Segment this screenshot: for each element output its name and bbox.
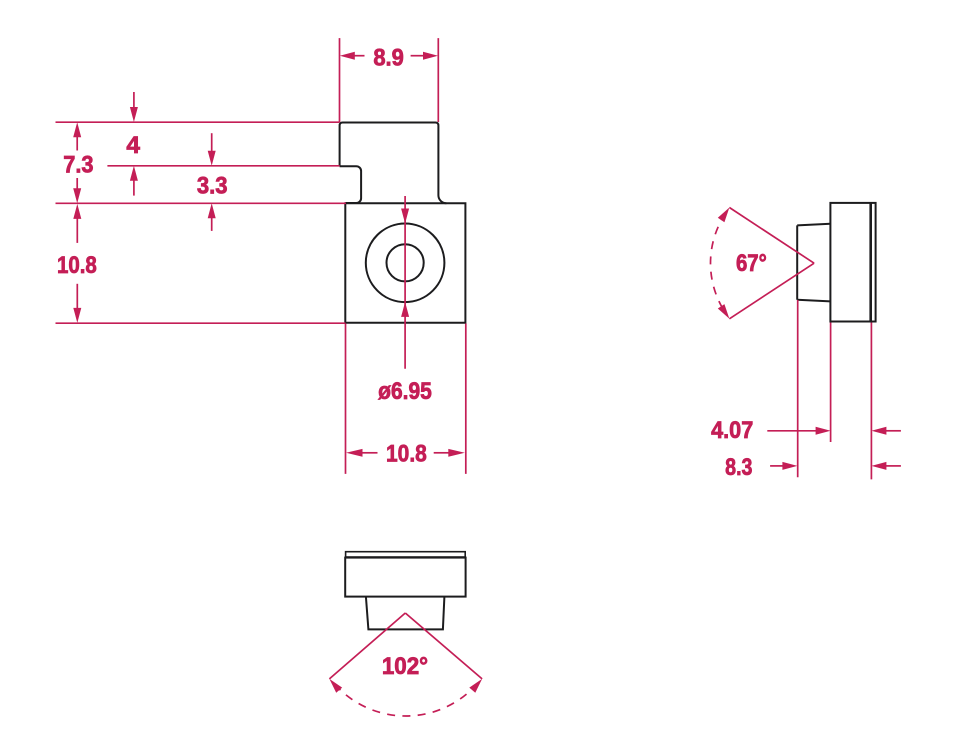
dim 8.9 tail right: [411, 55, 424, 57]
fov 102 right line: [405, 613, 482, 679]
dim 3.3 bottom arrow shaft: [211, 217, 213, 231]
dim 7.3 top shaft: [76, 136, 78, 151]
arrowhead 4.07 right: [871, 427, 886, 435]
bottom view: barrel trapezoid: [366, 597, 445, 630]
side ext line pcb: [870, 323, 872, 480]
dim 4 bottom arrow shaft: [133, 180, 135, 196]
arrowhead 4 bottom: [130, 166, 138, 181]
arrowhead lens bottom: [401, 302, 409, 317]
fov 102 arc arrowhead right: [469, 679, 482, 693]
svg-text:102°: 102°: [382, 653, 428, 680]
dim 10.8 bottom ext right: [465, 324, 467, 474]
arrowhead 10.8 bottom right: [448, 449, 465, 457]
bottom view: pcb strip: [346, 552, 466, 557]
arrowhead 7.3 top: [73, 122, 81, 137]
svg-text:4: 4: [126, 132, 140, 159]
arrowhead 8.3 left: [782, 462, 797, 470]
dim 8.9 tail left: [354, 55, 365, 57]
svg-text:3.3: 3.3: [197, 173, 228, 200]
front view: lens inner circle: [387, 244, 424, 281]
dim 3.3 top arrow shaft: [211, 133, 213, 152]
arrowhead 8.3 right: [871, 462, 886, 470]
ext line body top y203.3: [56, 202, 347, 204]
svg-text:7.3: 7.3: [63, 151, 93, 178]
arrowhead 4 top: [130, 107, 138, 122]
svg-text:4.07: 4.07: [711, 417, 753, 444]
ext line tab top y165.8: [107, 165, 339, 167]
side ext line body front: [830, 323, 832, 443]
dim 8.9 extension line right: [437, 38, 439, 122]
fov 102 dashed arc: [335, 684, 477, 716]
svg-text:ø6.95: ø6.95: [378, 378, 432, 405]
svg-text:8.3: 8.3: [725, 454, 752, 481]
fov 67 upper line: [729, 208, 814, 264]
dim 4.07 tail left: [767, 430, 816, 432]
dim 8.9 extension line left: [339, 38, 341, 122]
fov 67 arc arrowhead bottom: [718, 304, 730, 319]
arrowhead 4.07 left: [816, 427, 831, 435]
side view: barrel bottom edge: [797, 300, 830, 302]
arrowhead 8.9 left: [340, 52, 355, 60]
side view: barrel top edge: [797, 224, 830, 226]
dim 10.8 bottom ext left: [345, 324, 347, 474]
fov 102 arc arrowhead left: [329, 679, 342, 693]
arrowhead 3.3 top: [208, 151, 216, 166]
dim 10.8 left bottom shaft: [76, 284, 78, 309]
side view: pcb thick line: [869, 203, 872, 322]
side view: body rectangle: [830, 203, 875, 322]
front view: module body square: [345, 203, 465, 322]
arrowhead 8.9 right: [423, 52, 438, 60]
dim 4.07 tail right: [886, 430, 901, 432]
svg-text:10.8: 10.8: [386, 440, 427, 467]
side ext line barrel front: [797, 300, 799, 477]
arrowhead 7.3 bottom: [73, 188, 81, 203]
fov 67 lower line: [729, 263, 814, 319]
front view: lens barrel outline: [340, 123, 447, 204]
dim 8.3 tail right: [886, 465, 901, 467]
dim 8.3 tail left: [770, 465, 783, 467]
ext line top edge y122: [56, 121, 340, 123]
ext line body bottom y322.3: [56, 322, 346, 324]
front view: flex tab (rounded): [340, 166, 362, 203]
front view: lens outer circle: [366, 223, 445, 302]
svg-text:67°: 67°: [736, 250, 767, 277]
svg-text:10.8: 10.8: [57, 252, 97, 279]
arrowhead 3.3 bottom: [208, 203, 216, 218]
lens centerline: [404, 196, 406, 369]
fov 67 dashed arc: [710, 213, 725, 313]
fov 102 left line: [329, 613, 405, 679]
arrowhead 10.8 left top: [73, 204, 81, 219]
bottom view: body rectangle: [345, 558, 465, 597]
arrowhead lens top: [401, 209, 409, 224]
side view: barrel front face: [796, 225, 798, 299]
dim 10.8 left top shaft: [76, 218, 78, 243]
dim 7.3 bottom shaft: [76, 178, 78, 190]
arrowhead 10.8 left bottom: [73, 308, 81, 323]
dim 4 top arrow shaft: [133, 92, 135, 109]
svg-text:8.9: 8.9: [373, 45, 404, 72]
dim 10.8 bottom tail left: [362, 452, 378, 454]
dim 10.8 bottom tail right: [434, 452, 449, 454]
fov 67 arc arrowhead top: [718, 208, 730, 223]
arrowhead 10.8 bottom left: [346, 449, 363, 457]
